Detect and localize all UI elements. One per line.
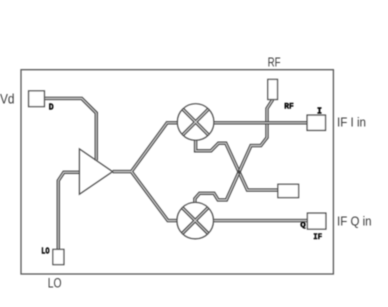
svg-text:D: D xyxy=(49,103,54,113)
svg-text:IF I in: IF I in xyxy=(337,115,366,130)
svg-text:RF: RF xyxy=(284,103,294,112)
svg-text:I: I xyxy=(317,106,322,117)
wire amp output splitter xyxy=(113,123,178,221)
chip outline xyxy=(21,70,333,274)
pad IF I xyxy=(307,115,325,130)
svg-text:RF: RF xyxy=(268,55,281,70)
svg-text:IF Q in: IF Q in xyxy=(337,213,372,228)
svg-text:LO: LO xyxy=(41,246,50,256)
pad RF xyxy=(268,79,278,99)
mixer M1 circle xyxy=(177,104,214,141)
svg-text:LO: LO xyxy=(48,276,62,291)
svg-text:Vd: Vd xyxy=(0,90,15,106)
mixer M1 cross xyxy=(183,109,209,135)
pad IF Q xyxy=(307,213,326,229)
mixer M2 cross xyxy=(182,208,208,234)
wire mixer1 to IF I pad xyxy=(214,121,308,124)
wire LO input xyxy=(58,172,79,249)
wire Vd bias xyxy=(44,98,96,160)
crossover junction blob xyxy=(238,170,241,173)
svg-text:Q: Q xyxy=(300,222,306,230)
mixer M2 circle xyxy=(177,202,214,239)
wire mixer2 to IF Q pad xyxy=(214,219,308,222)
termination R1 xyxy=(278,184,299,197)
pad LO xyxy=(53,249,64,264)
wire RF to mixer2 xyxy=(195,100,273,203)
wire mixer1 to termination xyxy=(196,140,278,190)
amplifier A1 xyxy=(79,149,112,194)
svg-text:IF: IF xyxy=(313,234,322,242)
pad Vd xyxy=(29,91,45,107)
